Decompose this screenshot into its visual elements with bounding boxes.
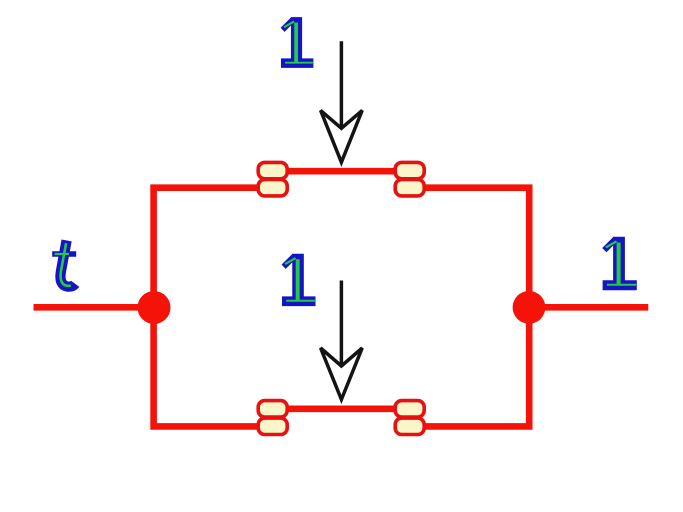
element bottom-left double box <box>258 401 287 435</box>
element top-left double box <box>258 162 287 196</box>
wire left input stub <box>34 304 154 311</box>
label right 1 <box>603 237 637 285</box>
element top-right double box <box>395 162 424 196</box>
arrow inner (marking arrow) <box>321 281 363 400</box>
wire top middle segment <box>273 168 410 175</box>
wire left U loop <box>154 188 273 427</box>
label top 1 <box>281 17 313 63</box>
wire right U loop <box>410 188 530 427</box>
wire bottom middle segment <box>273 405 410 412</box>
element bottom-right double box <box>395 401 424 435</box>
label middle 1 <box>282 254 316 302</box>
label t (transition) <box>52 240 76 286</box>
node right junction dot <box>513 291 546 324</box>
node left junction dot <box>138 291 171 324</box>
wire right output stub <box>529 304 648 311</box>
arrow top (marking arrow) <box>321 41 363 162</box>
